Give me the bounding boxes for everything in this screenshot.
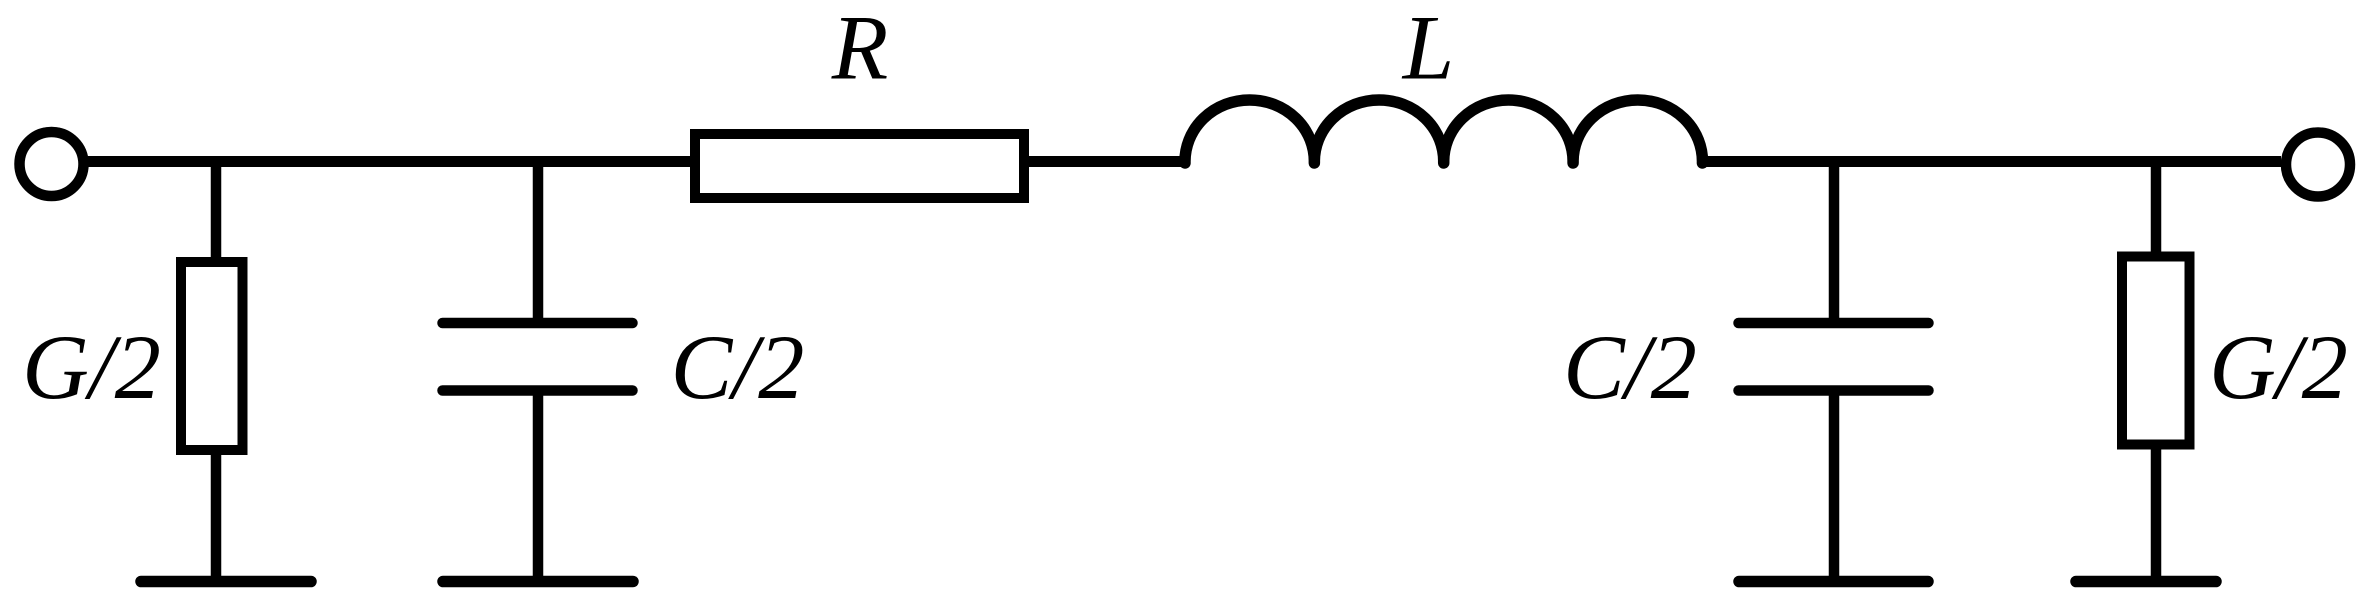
svg-text:G/2: G/2: [2209, 317, 2348, 419]
svg-text:G/2: G/2: [22, 317, 161, 419]
svg-text:C/2: C/2: [1563, 317, 1697, 419]
svg-text:L: L: [1401, 0, 1454, 100]
svg-text:C/2: C/2: [671, 317, 805, 419]
svg-text:R: R: [831, 0, 889, 100]
